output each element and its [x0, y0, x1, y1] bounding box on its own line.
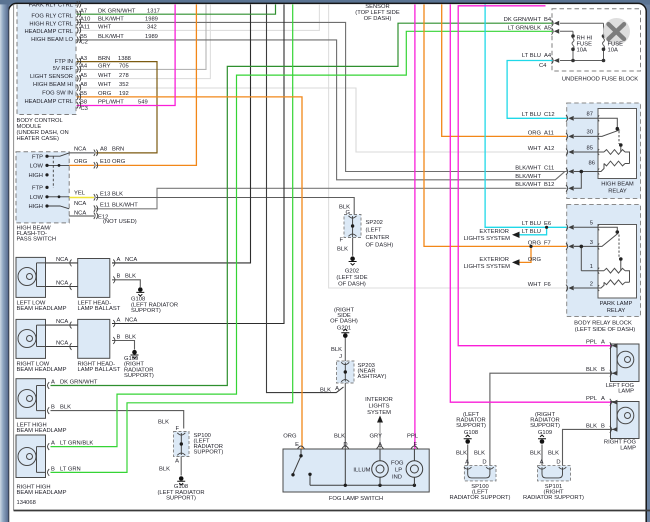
svg-text:NCA: NCA: [56, 340, 68, 346]
right high beam headlamp E4 box: [16, 435, 46, 478]
svg-text:FOG: FOG: [391, 461, 404, 467]
svg-text:LIGHT SENSOR: LIGHT SENSOR: [30, 74, 73, 80]
svg-text:BLK: BLK: [586, 367, 597, 373]
svg-text:87: 87: [587, 112, 593, 118]
wire ORG top edge to park lamp relay F7: [424, 4, 567, 246]
svg-text:BLK: BLK: [331, 347, 342, 353]
svg-text:OF DASH): OF DASH): [330, 319, 358, 325]
svg-text:A5: A5: [544, 25, 551, 31]
fog lamp connector arcs and arrows: [610, 342, 612, 433]
fog lamp switch internal contacts: [293, 449, 414, 485]
svg-text:HIGH: HIGH: [29, 173, 44, 179]
svg-text:(NOT USED): (NOT USED): [103, 219, 137, 225]
wire BLK/WHT FTP E11 to high beam relay B12: [96, 188, 567, 209]
high beam relay internal wiring: [574, 118, 630, 188]
svg-text:LT BLU: LT BLU: [522, 229, 541, 235]
svg-text:BLK: BLK: [125, 274, 136, 280]
svg-text:BLK/WHT: BLK/WHT: [98, 17, 124, 23]
left low beam headlamp symbol: [18, 263, 46, 287]
svg-text:BLK: BLK: [60, 405, 71, 411]
svg-text:BODY RELAY BLOCK: BODY RELAY BLOCK: [574, 320, 632, 326]
svg-text:RADIATOR SUPPORT): RADIATOR SUPPORT): [523, 495, 584, 501]
svg-text:BLK: BLK: [586, 423, 597, 429]
fog lamp switch ILLUM lamp: [372, 449, 389, 485]
svg-text:B: B: [51, 405, 55, 411]
svg-text:PARK LAMP: PARK LAMP: [600, 301, 633, 307]
svg-text:LT BLU: LT BLU: [522, 221, 541, 227]
svg-text:SUPPORT): SUPPORT): [131, 308, 161, 314]
svg-text:(LEFT: (LEFT: [366, 228, 383, 234]
svg-text:HEATER CASE): HEATER CASE): [17, 136, 59, 142]
svg-text:1317: 1317: [147, 8, 160, 14]
diagram frame left edge: [13, 4, 15, 510]
fuse block A4 junction dots: [571, 59, 575, 63]
svg-text:F: F: [339, 238, 343, 244]
ground G202: [349, 256, 357, 265]
relay block connector arcs and arrows: [566, 115, 568, 292]
svg-text:342: 342: [147, 25, 157, 31]
wire BLK ground G109 to fog splice A: [541, 445, 543, 466]
svg-text:86: 86: [589, 160, 595, 166]
svg-text:DK GRN/WHT: DK GRN/WHT: [98, 8, 136, 14]
svg-text:A11: A11: [544, 130, 554, 136]
svg-text:D: D: [482, 460, 486, 466]
svg-text:SUPPORT): SUPPORT): [124, 373, 154, 379]
left headlamp ballast box: [78, 259, 110, 298]
svg-text:BLK: BLK: [337, 247, 348, 253]
wire NCA right ballast A to top edge: [112, 4, 284, 323]
branch junction dots on relay feeds: [545, 226, 548, 229]
fog lamp switch FOG LP IND lamp: [406, 449, 423, 485]
svg-text:WHT: WHT: [528, 146, 542, 152]
svg-text:LAMP: LAMP: [618, 388, 634, 394]
svg-text:A8: A8: [80, 82, 87, 88]
high beam relay block box: [567, 103, 641, 199]
svg-text:BLK: BLK: [320, 388, 331, 394]
headlamp to ballast connector arcs: [48, 260, 116, 476]
svg-text:LAMP BALLAST: LAMP BALLAST: [78, 367, 121, 373]
svg-text:5V REF: 5V REF: [53, 66, 74, 72]
splice SP100 fog box: [464, 466, 496, 481]
wire BLK ground G201 to splice SP203: [344, 338, 346, 362]
svg-text:CENTER: CENTER: [366, 235, 390, 241]
svg-text:BRN: BRN: [112, 147, 124, 153]
svg-text:F7: F7: [544, 240, 551, 246]
wire WHT 342 BCM A11 to top edge: [77, 4, 320, 30]
ground G108 above left fog splice: [464, 435, 472, 444]
wire BLK right fog lamp B to splice D: [563, 429, 611, 465]
wire LT BLU top edge to park lamp relay E6: [485, 4, 567, 227]
svg-text:705: 705: [119, 64, 129, 70]
svg-text:BLK/WHT: BLK/WHT: [515, 174, 541, 180]
svg-text:GRY: GRY: [98, 64, 111, 70]
exterior lights arrow LT BLU: [512, 232, 520, 238]
svg-text:PPL: PPL: [586, 340, 598, 346]
svg-text:BLK: BLK: [456, 451, 467, 457]
svg-text:BLK: BLK: [548, 451, 559, 457]
svg-text:BEAM HEADLAMP: BEAM HEADLAMP: [17, 490, 67, 496]
exterior lights arrow ORG: [512, 259, 520, 265]
svg-text:134068: 134068: [17, 500, 36, 506]
svg-text:A: A: [335, 386, 339, 392]
svg-text:NCA: NCA: [74, 147, 86, 153]
diagram frame bottom edge: [14, 510, 650, 512]
right fog lamp symbol: [611, 402, 634, 429]
svg-text:A: A: [117, 257, 121, 263]
svg-text:DK GRN/WHT: DK GRN/WHT: [504, 17, 542, 23]
svg-text:B: B: [51, 466, 55, 472]
svg-text:NCA: NCA: [125, 317, 137, 323]
svg-text:HEADLAMP CTRL: HEADLAMP CTRL: [24, 29, 73, 35]
svg-text:E13: E13: [100, 191, 110, 197]
relay inner box pin arcs: [598, 115, 599, 291]
wire NCA left low beam lamp to ballast top: [46, 262, 78, 264]
svg-text:NCA: NCA: [56, 280, 68, 286]
svg-text:LAMP: LAMP: [620, 445, 636, 451]
svg-text:OF DASH): OF DASH): [364, 16, 392, 22]
svg-text:HIGH RLY CTRL: HIGH RLY CTRL: [29, 21, 73, 27]
wire BLK left fog lamp B to splice D: [490, 373, 611, 465]
svg-text:FTP IN: FTP IN: [55, 59, 73, 65]
svg-text:NCA: NCA: [74, 201, 86, 207]
svg-text:LT GRN: LT GRN: [60, 466, 81, 472]
svg-text:B8: B8: [80, 100, 87, 106]
left high beam headlamp symbol: [18, 386, 46, 411]
svg-text:ILLUM: ILLUM: [353, 468, 370, 474]
svg-text:SUPPORT): SUPPORT): [166, 496, 196, 502]
svg-text:B: B: [117, 274, 121, 280]
svg-text:BLK: BLK: [334, 433, 345, 439]
svg-text:BLK: BLK: [112, 191, 123, 197]
svg-text:10A: 10A: [577, 48, 587, 54]
wire PPL top edge to fog lamp switch F: [414, 4, 416, 449]
svg-text:D: D: [343, 442, 347, 448]
left fog lamp E5 box: [611, 344, 640, 382]
svg-text:A4: A4: [544, 53, 552, 59]
svg-text:BLK: BLK: [158, 420, 169, 426]
svg-text:BEAM HEADLAMP: BEAM HEADLAMP: [17, 306, 67, 312]
wire NCA right low beam lamp to ballast top: [46, 324, 78, 326]
close X icon overlay: [603, 18, 630, 45]
ground G109 above right fog splice: [538, 435, 546, 444]
svg-text:DK GRN/WHT: DK GRN/WHT: [60, 379, 98, 385]
svg-text:5: 5: [590, 221, 593, 227]
svg-text:LIGHTS: LIGHTS: [369, 404, 390, 410]
FTP switch internal labels: [29, 154, 44, 210]
svg-text:YEL: YEL: [74, 191, 86, 197]
svg-text:LT GRN/BLK: LT GRN/BLK: [508, 25, 541, 31]
wire BLK splice SP100 A to ground G108: [180, 457, 182, 476]
svg-text:C4: C4: [539, 63, 547, 69]
wire BRN 1388 BCM A3 to FTP switch A8: [77, 62, 158, 153]
svg-text:LOW: LOW: [30, 195, 44, 201]
left scrollbar strip: [0, 4, 9, 522]
wire DK GRN/WHT fuse B4 to left high beam A: [51, 23, 553, 385]
splice SP202 internals: [349, 216, 357, 237]
wire YEL stub FTP E13: [69, 197, 94, 199]
svg-text:LIGHTS SYSTEM: LIGHTS SYSTEM: [464, 236, 511, 242]
body relay block box: [567, 205, 641, 317]
svg-text:NCA: NCA: [56, 319, 68, 325]
wire ORG branch to exterior lights arrow: [519, 246, 531, 262]
svg-text:BEAM HEADLAMP: BEAM HEADLAMP: [17, 428, 67, 434]
svg-text:INTERIOR: INTERIOR: [365, 397, 393, 403]
svg-text:B: B: [601, 367, 605, 373]
svg-text:ORG: ORG: [528, 240, 542, 246]
svg-text:352: 352: [119, 82, 129, 88]
svg-text:PPL: PPL: [586, 396, 598, 402]
wire BLK right ballast B to ground G109: [112, 341, 135, 350]
FTP switch internal pins and links: [47, 153, 69, 209]
svg-text:EXTERIOR: EXTERIOR: [479, 257, 509, 263]
svg-text:FTP: FTP: [32, 154, 43, 160]
svg-text:A8: A8: [100, 147, 107, 153]
svg-text:HIGH BEAM HI: HIGH BEAM HI: [33, 82, 73, 88]
svg-text:1: 1: [590, 264, 593, 270]
svg-text:E: E: [295, 442, 299, 448]
svg-text:FOG SW IN: FOG SW IN: [42, 91, 73, 97]
svg-text:10A: 10A: [608, 48, 618, 54]
svg-text:PARK RLY CTRL: PARK RLY CTRL: [29, 2, 74, 8]
wire LT GRN/BLK fuse A5 to right high beam A: [51, 31, 553, 446]
wire BLK splice SP203 to fog lamp switch D: [344, 383, 346, 449]
svg-text:A7: A7: [80, 8, 87, 14]
svg-text:BLK/WHT: BLK/WHT: [515, 165, 541, 171]
splice SP203 box: [337, 361, 355, 383]
underhood fuse block box: [552, 9, 641, 71]
svg-text:A11: A11: [80, 25, 90, 31]
svg-text:192: 192: [119, 91, 129, 97]
svg-text:30: 30: [587, 130, 593, 136]
svg-text:HEADLAMP CTRL: HEADLAMP CTRL: [24, 99, 73, 105]
wire PPL top edge to right fog lamp A: [450, 4, 610, 402]
body control module U-BCM box: [17, 4, 76, 114]
BCM connector arcs C2 side: [77, 1, 81, 108]
ground G109 right ballast: [131, 350, 139, 359]
wire ORG top edge to high beam relay 30: [442, 4, 567, 136]
park lamp relay K2 inner box: [598, 225, 637, 299]
wire GRY fog lamp switch A to interior lights arrow: [379, 418, 381, 450]
svg-text:ORG: ORG: [74, 159, 88, 165]
wire ORG 192 branch top edge to FTP switch E10: [96, 4, 196, 165]
wire PPL top corner to left fog lamp A: [458, 6, 610, 346]
svg-text:BLK/WHT: BLK/WHT: [515, 182, 541, 188]
wire LT GRN right high beam B to top edge: [51, 4, 293, 472]
svg-text:NCA: NCA: [74, 211, 86, 217]
wire WHT park relay F6 feed from top edge: [329, 4, 567, 288]
svg-text:SYSTEM: SYSTEM: [367, 410, 391, 416]
wire ORG 192 BCM B5 to fog lamp switch E: [77, 97, 303, 449]
svg-text:A12: A12: [544, 146, 554, 152]
svg-text:LT BLU: LT BLU: [522, 112, 541, 118]
wire DK GRN/WHT 1317 BCM A7 to top edge: [77, 4, 276, 14]
svg-text:A10: A10: [80, 17, 90, 23]
svg-text:SUPPORT): SUPPORT): [530, 423, 560, 429]
wire BLK left ballast B to ground G108: [112, 280, 140, 287]
splice SP100 box: [174, 432, 190, 457]
splice SP202 box: [344, 215, 361, 238]
wire NCA left ballast A to top edge: [112, 4, 251, 263]
svg-text:F: F: [175, 426, 179, 432]
svg-text:LAMP BALLAST: LAMP BALLAST: [78, 306, 121, 312]
svg-text:LT GRN/BLK: LT GRN/BLK: [60, 441, 93, 447]
svg-text:E11: E11: [100, 203, 110, 209]
svg-text:OF DASH): OF DASH): [338, 281, 366, 287]
svg-text:E6: E6: [544, 221, 551, 227]
fuse LH HI 10A: [560, 23, 605, 60]
high beam flash-to-pass switch S1 box: [16, 152, 69, 223]
svg-text:A3: A3: [80, 56, 87, 62]
svg-text:BRN: BRN: [98, 56, 110, 62]
svg-text:(LEFT SIDE: (LEFT SIDE: [336, 275, 367, 281]
wire BLK stub FTP E12 not used: [69, 215, 94, 217]
svg-text:RADIATOR SUPPORT): RADIATOR SUPPORT): [450, 495, 511, 501]
ground G108 left ballast: [136, 287, 144, 296]
svg-text:BLK: BLK: [159, 467, 170, 473]
right low beam headlamp E2 box: [16, 319, 46, 358]
svg-text:PPL/WHT: PPL/WHT: [98, 100, 124, 106]
svg-text:F6: F6: [544, 282, 551, 288]
wire NCA right low beam lamp to ballast bottom: [46, 346, 78, 348]
svg-text:A5: A5: [80, 73, 87, 79]
wire BLK/WHT 1989 BCM B5 to high beam relay C11 diagonal: [77, 40, 565, 180]
svg-text:A: A: [540, 460, 544, 466]
wire BLK top edge to splice SP203 pin A: [267, 4, 344, 392]
svg-text:EXTERIOR: EXTERIOR: [479, 229, 509, 235]
svg-text:A: A: [465, 460, 469, 466]
svg-text:G202: G202: [345, 268, 359, 274]
svg-text:GRY: GRY: [370, 433, 383, 439]
svg-text:NCA: NCA: [125, 257, 137, 263]
svg-text:G: G: [345, 210, 350, 216]
splice SP101 fog box: [538, 466, 571, 481]
svg-text:LP: LP: [395, 468, 402, 474]
FTP switch connector arcs: [94, 150, 98, 220]
svg-text:OF DASH): OF DASH): [366, 243, 394, 249]
svg-text:SUPPORT): SUPPORT): [194, 450, 224, 456]
svg-text:A: A: [378, 442, 382, 448]
svg-text:HIGH BEAM LO: HIGH BEAM LO: [31, 37, 73, 43]
svg-text:G201: G201: [337, 325, 351, 331]
svg-text:PASS SWITCH: PASS SWITCH: [17, 236, 57, 242]
wire NCA left low beam lamp to ballast bottom: [46, 286, 78, 288]
svg-text:WHT: WHT: [98, 73, 112, 79]
wire BLK SP202 to ground G202: [352, 238, 354, 256]
svg-text:B: B: [117, 334, 121, 340]
fog lamp switch pin bump arcs: [298, 446, 418, 449]
svg-text:SP202: SP202: [366, 220, 383, 226]
wire NCA stub FTP A8 row: [69, 152, 94, 154]
svg-text:1989: 1989: [145, 34, 158, 40]
svg-text:85: 85: [587, 145, 593, 151]
BCM pin labels left column: [24, 2, 73, 105]
svg-text:BLK: BLK: [125, 334, 136, 340]
ground G108 under splice SP100: [177, 476, 185, 485]
svg-text:A: A: [51, 379, 55, 385]
splice SP101 fog internals: [538, 467, 566, 478]
wire BLK FTP E13 to splice SP202: [96, 198, 354, 215]
wire BLK/WHT 1989 BCM A10 to high beam relay C11: [77, 22, 567, 171]
svg-text:BLK: BLK: [530, 451, 541, 457]
svg-text:J: J: [339, 354, 342, 360]
svg-text:G109: G109: [538, 430, 552, 436]
wire WHT 352 BCM A8 to high beam relay pin 85: [77, 88, 567, 152]
svg-text:A: A: [117, 317, 121, 323]
svg-text:F: F: [413, 442, 417, 448]
svg-text:WHT: WHT: [98, 82, 112, 88]
svg-text:A: A: [51, 441, 55, 447]
left low beam headlamp E1 box: [16, 257, 46, 297]
svg-text:LIGHTS SYSTEM: LIGHTS SYSTEM: [464, 264, 511, 270]
right fog lamp E6 box: [611, 402, 640, 439]
svg-text:C2: C2: [81, 39, 88, 45]
svg-text:SUPPORT): SUPPORT): [456, 423, 486, 429]
svg-text:D: D: [556, 460, 560, 466]
svg-text:1388: 1388: [118, 56, 131, 62]
svg-text:ORG: ORG: [528, 257, 542, 263]
svg-text:FOG LAMP SWITCH: FOG LAMP SWITCH: [329, 496, 383, 502]
svg-text:LT BLU: LT BLU: [522, 53, 541, 59]
svg-text:ORG: ORG: [283, 433, 297, 439]
svg-text:HIGH: HIGH: [29, 204, 44, 210]
wire ORG stub FTP E10 row: [69, 164, 94, 166]
svg-text:A4: A4: [80, 64, 88, 70]
window top bar: [0, 0, 650, 5]
svg-text:BLK: BLK: [474, 451, 485, 457]
svg-text:IND: IND: [392, 475, 402, 481]
right headlamp ballast box: [78, 319, 110, 358]
svg-text:B4: B4: [544, 17, 552, 23]
wire LT BLU branch to exterior lights arrow: [519, 227, 547, 235]
wire PPL/WHT 549 BCM B8 to top edge: [77, 4, 176, 105]
svg-text:UNDERHOOD FUSE BLOCK: UNDERHOOD FUSE BLOCK: [562, 76, 638, 82]
svg-text:A: A: [175, 459, 179, 465]
svg-text:ORG: ORG: [112, 159, 126, 165]
svg-text:ASHTRAY): ASHTRAY): [358, 374, 387, 380]
svg-text:NCA: NCA: [56, 257, 68, 263]
right high beam headlamp symbol: [18, 447, 46, 473]
splice SP203 internals: [341, 362, 349, 382]
high beam relay K1 inner box: [598, 109, 637, 179]
svg-text:LOW: LOW: [30, 164, 44, 170]
left fog lamp symbol: [611, 346, 634, 374]
svg-text:278: 278: [119, 73, 129, 79]
svg-text:2: 2: [590, 281, 593, 287]
svg-text:PPL: PPL: [407, 433, 419, 439]
svg-text:BLK/WHT: BLK/WHT: [98, 34, 124, 40]
interior lights system arrow: [377, 416, 383, 423]
svg-text:WHT: WHT: [528, 282, 542, 288]
svg-text:1989: 1989: [145, 17, 158, 23]
svg-text:3: 3: [590, 240, 593, 246]
svg-text:FTP: FTP: [32, 186, 43, 192]
svg-text:BEAM HEADLAMP: BEAM HEADLAMP: [17, 367, 67, 373]
wire BLK ground G108 to fog splice A: [467, 445, 469, 466]
svg-text:G108: G108: [464, 430, 478, 436]
svg-text:A: A: [601, 340, 605, 346]
svg-text:BLK/WHT: BLK/WHT: [112, 203, 138, 209]
splice SP100 fog internals: [464, 467, 494, 478]
svg-text:549: 549: [138, 100, 148, 106]
wire LT BLU fuse A4 to high beam relay C12: [507, 61, 567, 119]
svg-text:B12: B12: [544, 182, 554, 188]
svg-text:WHT: WHT: [98, 25, 112, 31]
svg-text:ORG: ORG: [98, 91, 112, 97]
wire BLK left high beam B to splice SP100: [51, 411, 184, 429]
fog lamp switch S2 box: [283, 449, 429, 492]
svg-text:C12: C12: [544, 112, 555, 118]
ground G201: [341, 329, 349, 338]
